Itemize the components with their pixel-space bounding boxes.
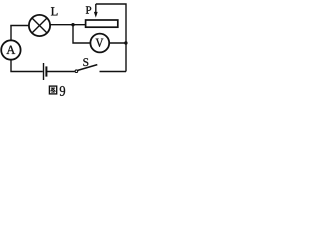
voltmeter V (90, 34, 109, 53)
node junction dot (voltmeter tap, left) (71, 23, 74, 26)
wire: ammeter bottom, bottom-left corner, bottom rail to battery (11, 60, 43, 72)
wire: voltmeter right to right rail (109, 42, 126, 44)
wire: junction down and right to voltmeter (73, 25, 91, 43)
label L (51, 7, 58, 15)
rheostat wiper arrow P (94, 4, 98, 18)
node junction dot (right rail / voltmeter) (124, 41, 127, 44)
switch blade (78, 65, 98, 71)
wire: battery to switch pivot (46, 71, 75, 73)
switch S pivot (75, 70, 78, 73)
label S (83, 58, 88, 66)
wire: lamp to rheostat (through junction) (50, 24, 86, 26)
caption: hanzi "tu" (figure) drawn as paths (49, 86, 56, 94)
wire: left vertical from top-left corner down to ammeter (10, 26, 12, 41)
caption: figure number 9 (60, 86, 65, 96)
wire: wiper top to top-right corner and down right side (96, 4, 126, 72)
wire: switch to bottom-right corner (100, 71, 127, 73)
ammeter A (1, 40, 20, 59)
wire: top-left horizontal from corner to lamp (10, 25, 28, 27)
battery cell: long plate (43, 63, 45, 80)
label P (86, 6, 91, 13)
battery cell: short plate (45, 66, 47, 76)
lamp L (29, 15, 50, 36)
resistor (rheostat) box (86, 20, 118, 27)
